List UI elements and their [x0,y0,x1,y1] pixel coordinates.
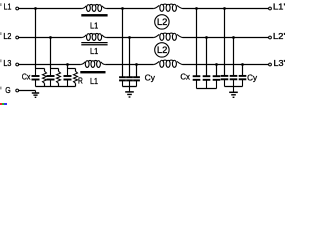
svg-text:L2: L2 [157,17,168,27]
wire R3 top stub [75,69,77,72]
terminal L2 [16,36,19,39]
terminal L1 [16,7,19,10]
junction row3 Cx right [215,63,218,66]
wire Cy mid 3 vertical [136,65,138,78]
junction row2 Cx right [205,36,208,39]
edge artifact marks [0,3,2,89]
ground right Cy [229,87,238,98]
wire R1 top stub [44,69,46,72]
svg-text:L2: L2 [3,32,11,41]
ground mid Cy [125,87,134,98]
wire L2 row segment b [106,37,153,39]
junction row1 Cy right [223,7,226,10]
capacitor Cy right 1 [221,75,229,87]
wire L1 row segment b [106,8,153,10]
svg-text:R: R [78,77,83,86]
core lines L1 row2 [81,42,107,45]
capacitor Cx right 3 [213,75,221,88]
capacitor Cy mid 1 [119,76,126,86]
junction row1 Cy mid [121,7,124,10]
capacitor Cy right 2 [230,75,238,87]
svg-text:L1: L1 [90,77,98,86]
wire R3 bottom stub [75,83,77,86]
wire L2 row segment a [19,37,82,39]
corner color artifact [0,103,2,105]
svg-text:Cx: Cx [22,72,31,81]
wire L1 row segment a [19,8,82,10]
resistor R2 (bleed) [57,71,61,83]
terminal L1 prime [269,7,272,10]
svg-text:L2: L2 [157,45,168,55]
capacitor Cx right 2 [203,75,211,88]
svg-text:Cy: Cy [247,74,257,83]
wire L1 row segment c [183,8,269,10]
svg-text:G: G [5,86,10,95]
wire Cx right 2 vertical [206,38,208,77]
terminal G [16,89,19,92]
junction row3 Cy mid [135,63,138,66]
wire R1 bottom stub [44,83,46,86]
junction row3 Cy right [241,63,244,66]
junction row2 Cy right [232,36,235,39]
choke L2 label circle upper [155,15,169,29]
resistor R1 (bleed) [43,71,47,83]
wire Cy right 1 vertical [224,9,226,76]
wire Cx branch1 split T [36,68,45,70]
wire Cx star rail [36,86,76,88]
inductor L1 winding row3 [81,61,106,68]
wire Cx branch1 vertical [35,9,37,69]
wire Cy mid rail [123,86,137,88]
junction row3 Cx branch [66,63,69,66]
choke L2 winding row2 [154,33,183,40]
svg-text:L1: L1 [90,47,99,56]
svg-text:L2': L2' [273,32,286,41]
wire Cx branch3 vertical [67,65,69,69]
wire Cx right 3 vertical [216,65,218,77]
svg-text:L3': L3' [274,59,286,68]
ground at G terminal [32,91,39,98]
terminal L3 prime [269,63,272,66]
wire Cx right 1 vertical [196,9,198,77]
junction row2 Cy mid [128,36,131,39]
wire Cx branch2 vertical [50,38,52,69]
choke L2 winding row3 [154,60,183,67]
svg-text:L1: L1 [4,3,12,12]
wire Cx right rail [197,88,217,90]
inductor L1 winding row2 [82,34,107,41]
junction row2 Cx branch [49,36,52,39]
terminal L3 [16,63,19,66]
svg-text:L1: L1 [90,21,99,30]
wire R2 top stub [58,69,60,72]
svg-text:L3: L3 [3,59,11,68]
capacitor Cx2 [47,69,55,87]
capacitor Cx3 [64,69,72,87]
choke L2 winding row1 [154,4,183,11]
wire Cy right rail [225,86,243,88]
svg-text:L1': L1' [273,3,286,12]
wire L3 row segment b [105,64,154,66]
capacitor Cx right 1 [193,75,201,88]
wire L3 row segment a [19,64,81,66]
svg-text:Cx: Cx [180,72,190,81]
core bar L1 row1 [81,14,107,16]
core bar L1 row3 [80,71,105,73]
capacitor Cy mid 2 [126,76,133,86]
wire Cx branch2 split T [51,68,59,70]
wire L2 row segment c [183,37,269,39]
wire L3 row segment c [183,64,269,66]
choke L2 label circle lower [155,43,169,57]
resistor R3 (bleed) [74,71,78,83]
wire Cy right 3 vertical [242,65,244,76]
junction row1 Cx right [195,7,198,10]
terminal L2 prime [269,36,272,39]
capacitor Cy mid 3 [133,76,140,86]
inductor L1 winding row1 [82,5,107,12]
junction row1 Cx branch [34,7,37,10]
wire G row [19,90,36,92]
wire R2 bottom stub [58,83,60,86]
svg-text:Cy: Cy [145,74,155,83]
capacitor Cy right 3 [239,75,247,87]
wire Cx branch3 split T [68,68,76,70]
wire Cy mid 1 vertical [122,9,124,78]
capacitor Cx1 [32,69,40,87]
wire Cy right 2 vertical [233,38,235,76]
wire Cy mid 2 vertical [129,38,131,78]
